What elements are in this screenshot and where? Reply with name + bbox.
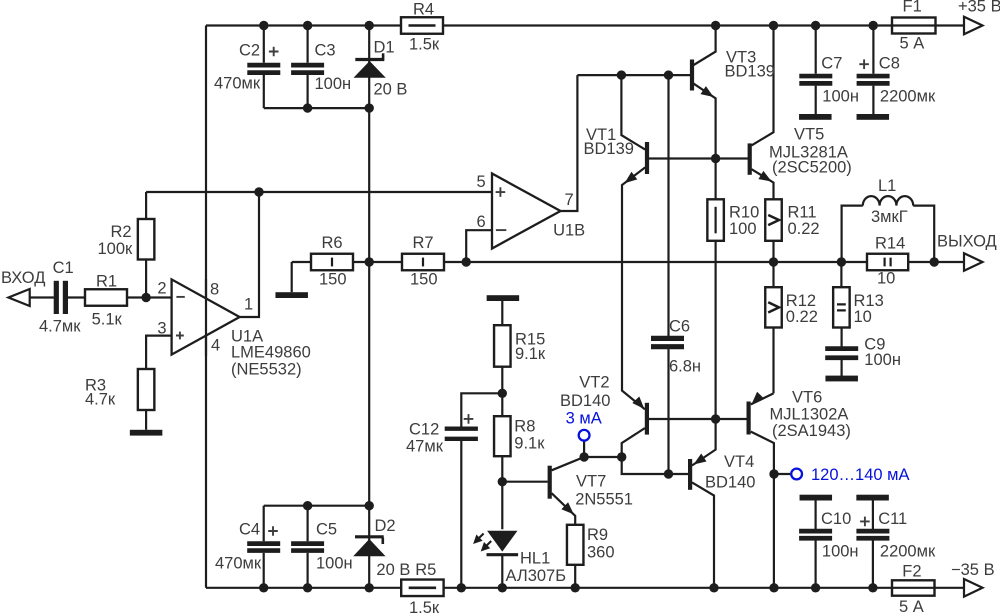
node C5 rail: [303, 583, 312, 592]
resistor R6: [311, 254, 353, 271]
transistor VT2 base bar: [645, 403, 649, 435]
node R11 R12 bus: [769, 257, 778, 266]
svg-text:VT6: VT6: [792, 388, 822, 406]
svg-text:BD140: BD140: [560, 392, 610, 410]
svg-text:LME49860: LME49860: [231, 344, 311, 362]
wire C4 C5 upper join: [264, 505, 370, 507]
node L1 left bus: [837, 257, 846, 266]
common bar C7: [799, 114, 832, 120]
op-amp U1A plus sign: [176, 332, 184, 340]
node VT3 collector rail: [711, 21, 720, 30]
wire U1B pin7 up: [561, 75, 578, 211]
svg-text:6.8н: 6.8н: [669, 357, 701, 375]
wire VT7 collector line: [552, 457, 622, 470]
-35V terminal arrow: [964, 579, 983, 597]
svg-text:100к: 100к: [98, 240, 134, 258]
svg-text:5: 5: [477, 173, 486, 191]
led HL1: [487, 531, 517, 552]
wire zener mid vertical D1-D2: [368, 26, 370, 588]
transistor VT5 emitter arrow: [758, 171, 771, 182]
node D1 top rail: [365, 21, 374, 30]
svg-text:ВХОД: ВХОД: [1, 269, 45, 287]
common bar C11: [856, 495, 889, 501]
probe circle 3mA: [579, 430, 590, 441]
capacitor C12: [445, 427, 478, 431]
node R7 pin6: [462, 257, 471, 266]
capacitor C10: [799, 529, 832, 534]
wire VT6 emitter diag: [751, 393, 774, 404]
svg-text:1.5к: 1.5к: [409, 599, 440, 614]
fuse F1: [892, 18, 936, 34]
plus C12: [464, 414, 474, 424]
svg-text:C4: C4: [239, 521, 260, 539]
node C7 rail: [811, 21, 820, 30]
node C10 rail: [811, 583, 820, 592]
node L1 right bus: [930, 257, 939, 266]
svg-text:47мк: 47мк: [406, 438, 444, 456]
transistor VT6 emitter arrow: [752, 392, 764, 404]
svg-text:F1: F1: [903, 0, 922, 16]
wire R2 bottom to pin2: [145, 260, 147, 298]
zener D1: [354, 61, 386, 78]
wire C6 lower lead: [667, 349, 669, 474]
capacitor C9: [825, 346, 858, 351]
resistor R13: [833, 287, 850, 327]
svg-text:R4: R4: [413, 0, 434, 18]
resistor R7: [402, 254, 444, 271]
node R10 VT4e bases: [711, 414, 720, 423]
wire VT6 collector down: [751, 432, 774, 588]
svg-text:L1: L1: [878, 177, 896, 195]
capacitor C1: [54, 281, 59, 314]
resistor R14: [867, 254, 908, 271]
svg-text:9.1к: 9.1к: [514, 434, 545, 452]
+35V terminal arrow: [964, 17, 983, 35]
svg-text:−35 В: −35 В: [951, 561, 995, 579]
svg-text:VT7: VT7: [576, 472, 606, 490]
svg-text:150: 150: [410, 270, 438, 288]
svg-text:4: 4: [211, 337, 220, 355]
transistor VT1 base bar: [645, 142, 649, 174]
resistor R10: [707, 199, 724, 241]
svg-text:C8: C8: [879, 55, 900, 73]
svg-text:4.7к: 4.7к: [85, 391, 116, 409]
node VT1 collector y75: [617, 70, 626, 79]
wire VT4 emitter up: [692, 419, 716, 466]
wire R10 leads: [714, 159, 716, 420]
wire 3mA probe stub: [583, 441, 585, 457]
svg-text:5 А: 5 А: [899, 598, 924, 614]
node VT7c VT2c: [617, 452, 626, 461]
wire C6 upper lead: [667, 75, 669, 336]
svg-text:+35 В: +35 В: [958, 0, 1000, 16]
svg-text:(2SC5200): (2SC5200): [772, 159, 852, 177]
node R9 rail: [571, 583, 580, 592]
node C4 rail: [259, 583, 268, 592]
wire C2 C3 lower join: [264, 107, 369, 109]
wire C10 leads: [814, 500, 816, 588]
wire C5 leads: [307, 506, 309, 588]
wire C11 leads: [872, 500, 874, 588]
svg-text:7: 7: [565, 191, 574, 209]
svg-text:VT4: VT4: [724, 453, 754, 471]
svg-text:D1: D1: [374, 38, 395, 56]
svg-text:R7: R7: [413, 234, 434, 252]
wire R11 bottom to bus: [772, 241, 774, 262]
plus C4: [268, 526, 278, 536]
wire input to C1 to R1: [30, 296, 172, 298]
svg-text:120…140 мА: 120…140 мА: [811, 466, 910, 484]
transistor VT6 base bar: [747, 402, 751, 435]
node HL1 rail: [498, 583, 507, 592]
svg-text:100: 100: [729, 220, 757, 238]
transistor VT7 emitter arrow: [561, 502, 573, 514]
transistor VT4 base bar: [688, 459, 692, 490]
svg-text:F2: F2: [902, 563, 921, 581]
wire U1A pin8-pin4 pass-through: [205, 279, 207, 356]
node mid bus: [365, 257, 374, 266]
node VT6c probe: [769, 469, 778, 478]
ground above R15: [487, 295, 520, 301]
svg-text:MJL1302A: MJL1302A: [770, 406, 849, 424]
node R8 VT7 base: [498, 477, 507, 486]
wire VT3 emitter down: [692, 83, 716, 159]
svg-text:VT5: VT5: [794, 125, 824, 143]
svg-text:10: 10: [877, 269, 895, 287]
wire VT7 emitter to R9: [552, 493, 576, 588]
svg-text:8: 8: [210, 281, 219, 299]
svg-text:0.22: 0.22: [786, 308, 818, 326]
wire VT5 collector: [752, 26, 774, 146]
resistor R2: [138, 219, 155, 260]
wire +supply top rail: [206, 24, 964, 26]
inductor L1: [863, 196, 913, 206]
svg-text:C1: C1: [53, 259, 74, 277]
resistor R8: [494, 416, 511, 456]
node R15 R8 C12: [498, 389, 507, 398]
wire C2 leads: [263, 26, 265, 109]
svg-text:R8: R8: [514, 417, 535, 435]
wire VT7 base lead: [502, 481, 547, 483]
node C3 lower: [303, 103, 312, 112]
svg-text:150: 150: [319, 270, 347, 288]
common bar C10: [800, 495, 833, 501]
plus C8: [859, 59, 869, 69]
resistor R9: [567, 525, 584, 565]
ground under R6: [275, 292, 308, 298]
svg-text:2200мк: 2200мк: [880, 87, 936, 105]
transistor VT3 emitter arrow: [701, 86, 714, 97]
svg-text:BD140: BD140: [705, 473, 755, 491]
capacitor C2: [247, 63, 280, 68]
wire 120mA probe stub: [774, 473, 791, 475]
transistor VT7 base bar: [548, 466, 552, 499]
capacitor C4: [247, 541, 280, 546]
node VT3e VT5b: [711, 154, 720, 163]
resistor R12: [765, 287, 782, 327]
wire R13 leads: [840, 262, 842, 376]
wire VT2 collector to VT4 base: [622, 428, 689, 474]
svg-text:3мкГ: 3мкГ: [871, 208, 908, 226]
input terminal arrow: [8, 289, 29, 306]
svg-text:100н: 100н: [315, 75, 352, 93]
op-amp U1B plus sign: [496, 187, 506, 197]
svg-text:360: 360: [587, 544, 615, 562]
capacitor C11: [856, 529, 889, 534]
svg-text:4.7мк: 4.7мк: [39, 318, 81, 336]
plus C11: [860, 517, 870, 527]
output terminal arrow: [964, 253, 983, 271]
transistor VT5 base bar: [748, 143, 752, 174]
capacitor C8: [857, 74, 890, 79]
node C6 bottom: [664, 469, 673, 478]
svg-text:D2: D2: [375, 517, 396, 535]
svg-text:6: 6: [477, 213, 486, 231]
resistor R5: [401, 580, 443, 597]
svg-text:C6: C6: [669, 318, 690, 336]
svg-text:C5: C5: [316, 521, 337, 539]
wire C8 leads: [872, 26, 874, 115]
wire R15 leads: [501, 301, 503, 394]
svg-text:BD139: BD139: [725, 62, 775, 80]
node U1A out feedback: [254, 187, 263, 196]
wire VT1 collector: [621, 75, 645, 150]
wire U1B pin6 hook: [466, 230, 492, 262]
wire R12 leads: [772, 262, 774, 393]
wire VT1 emitter vertical shared with VT2: [622, 167, 645, 409]
svg-text:C7: C7: [821, 55, 842, 73]
svg-text:C2: C2: [239, 41, 260, 59]
svg-text:R9: R9: [587, 526, 608, 544]
wire C12 hook and leads: [461, 393, 502, 588]
resistor R11: [765, 199, 782, 241]
svg-text:470мк: 470мк: [215, 555, 262, 573]
svg-text:(NE5532): (NE5532): [231, 361, 302, 379]
wire -supply bottom rail: [206, 587, 964, 589]
svg-text:C3: C3: [315, 41, 336, 59]
svg-text:C12: C12: [409, 421, 439, 439]
wire feedback line y192: [146, 191, 492, 193]
node C8 rail: [869, 21, 878, 30]
wire VAS line y75: [577, 74, 690, 76]
node 3mA probe: [579, 452, 588, 461]
node VT4c rail: [709, 583, 718, 592]
transistor VT2 emitter arrow: [632, 397, 644, 409]
svg-text:3 мА: 3 мА: [566, 409, 602, 427]
wire main output bus y262: [292, 261, 964, 263]
svg-text:2: 2: [157, 280, 166, 298]
svg-text:R2: R2: [111, 223, 132, 241]
wire VT1-VT5 base line y158: [649, 157, 748, 159]
node C2 top rail: [259, 21, 268, 30]
svg-text:2N5551: 2N5551: [575, 491, 633, 509]
resistor R15: [494, 325, 511, 367]
wire VT2-VT6 base line y419: [649, 418, 747, 420]
svg-text:BD139: BD139: [584, 140, 634, 158]
svg-text:(2SA1943): (2SA1943): [772, 422, 851, 440]
svg-text:100н: 100н: [822, 87, 859, 105]
svg-text:R1: R1: [96, 273, 117, 291]
svg-text:C11: C11: [878, 510, 907, 528]
wire VT3 collector: [692, 26, 716, 67]
common bar C9: [825, 376, 858, 382]
transistor VT1 emitter arrow: [625, 172, 638, 183]
svg-text:VT2: VT2: [579, 373, 609, 391]
capacitor C5: [291, 541, 324, 546]
node C5 upper: [303, 501, 312, 510]
svg-text:20 В: 20 В: [376, 561, 410, 579]
common bar C8: [857, 114, 890, 120]
svg-text:10: 10: [854, 308, 872, 326]
wire VT4 collector down: [692, 482, 714, 587]
node D2 upper: [365, 501, 374, 510]
svg-text:5.1к: 5.1к: [92, 311, 123, 329]
plus C2: [269, 47, 279, 57]
op-amp U1B minus sign: [496, 229, 506, 231]
svg-text:100н: 100н: [316, 555, 353, 573]
node D2 rail: [365, 583, 374, 592]
node C3 top rail: [303, 21, 312, 30]
resistor R1: [85, 289, 127, 306]
wire R2 top riser: [145, 192, 147, 219]
svg-text:20 В: 20 В: [374, 80, 408, 98]
node C6 top y75: [664, 70, 673, 79]
svg-text:1: 1: [244, 296, 253, 314]
transistor VT4 emitter arrow: [694, 454, 707, 465]
svg-text:АЛ307Б: АЛ307Б: [506, 567, 567, 585]
svg-text:HL1: HL1: [520, 549, 550, 567]
wire pin3 lead and R3 risers: [146, 336, 172, 430]
wire C4 leads: [263, 506, 265, 588]
probe circle 120-140mA: [791, 469, 802, 480]
capacitor C7: [799, 74, 832, 79]
svg-text:3: 3: [157, 320, 166, 338]
svg-text:R6: R6: [322, 234, 343, 252]
node R1 R2 pin2: [141, 293, 150, 302]
node C12 rail: [457, 583, 466, 592]
op-amp U1A: [172, 279, 240, 354]
resistor R4: [401, 17, 443, 34]
wire U1A output up: [240, 192, 259, 317]
svg-text:C10: C10: [821, 510, 851, 528]
wire VT5 emitter to R11: [752, 169, 774, 199]
wire C3 leads: [307, 26, 309, 109]
svg-text:U1B: U1B: [553, 222, 585, 240]
transistor VT3 base bar: [690, 60, 694, 91]
svg-text:ВЫХОД: ВЫХОД: [937, 233, 997, 251]
zener D2: [353, 539, 385, 556]
svg-text:470мк: 470мк: [214, 75, 261, 93]
svg-text:100н: 100н: [822, 543, 859, 561]
wire left supply vertical (U1A pins 8/4): [205, 26, 207, 588]
wire R6 ground drop: [291, 262, 293, 292]
svg-text:R5: R5: [415, 561, 436, 579]
svg-text:0.22: 0.22: [788, 220, 820, 238]
resistor R3: [138, 369, 155, 410]
wire L1 legs: [842, 206, 935, 262]
op-amp U1B: [492, 174, 561, 249]
wire C7 leads: [815, 26, 817, 115]
ground under R3: [130, 430, 163, 436]
capacitor C6: [651, 336, 684, 341]
wire HL1 cathode lead: [501, 556, 503, 588]
capacitor C3: [291, 63, 324, 68]
node D1 lower: [365, 103, 374, 112]
op-amp U1A minus sign: [176, 296, 184, 298]
svg-text:R14: R14: [875, 234, 905, 252]
wire R8 leads: [501, 393, 503, 529]
node C11 rail: [868, 583, 877, 592]
fuse F2: [892, 580, 935, 595]
svg-text:100н: 100н: [864, 351, 901, 369]
svg-text:9.1к: 9.1к: [515, 345, 546, 363]
node VT6c rail: [769, 583, 778, 592]
svg-text:5 А: 5 А: [900, 35, 925, 53]
node VT5 collector rail: [769, 21, 778, 30]
svg-text:1.5к: 1.5к: [409, 35, 440, 53]
svg-text:2200мк: 2200мк: [880, 543, 936, 561]
